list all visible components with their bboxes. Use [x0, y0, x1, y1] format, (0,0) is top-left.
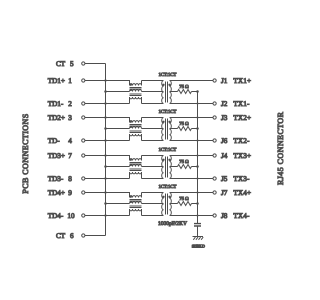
svg-text:1: 1	[68, 77, 72, 85]
wire transformer to J (+)	[170, 80, 214, 82]
phase dots choke L4	[130, 196, 132, 198]
wire center-tap bus to transformer CT	[106, 91, 130, 93]
wire choke to transformer (-)	[142, 103, 164, 105]
common-mode choke L3	[130, 156, 142, 179]
phase dots transformer T4	[162, 196, 164, 198]
svg-text:TD1-: TD1-	[48, 100, 64, 108]
pin CT6 circle	[82, 234, 85, 237]
wire choke to transformer (-)	[142, 178, 164, 180]
svg-text:J5: J5	[221, 175, 228, 183]
svg-text:TD3+: TD3+	[48, 152, 65, 160]
phase dots choke L3	[130, 159, 132, 161]
wire transformer to J (-)	[170, 140, 214, 142]
termination rail	[197, 92, 199, 224]
junction dots channel 4	[104, 191, 199, 216]
wire transformer to J (+)	[170, 192, 214, 194]
resistor R1 75 ohm	[170, 91, 178, 93]
wire TD1+ lead	[85, 81, 130, 86]
svg-text:J2: J2	[221, 100, 228, 108]
wire choke to transformer (+)	[142, 155, 164, 157]
junction dots channel 3	[104, 154, 199, 179]
phase dots transformer T3	[162, 159, 164, 161]
svg-text:2: 2	[68, 100, 72, 108]
svg-text:75 Ω: 75 Ω	[179, 121, 189, 127]
wire center-tap bus to transformer CT	[106, 166, 130, 168]
resistor R4 75 ohm	[170, 203, 178, 205]
wire TD2+ lead	[85, 118, 130, 123]
transformer T1 1CT:1CT	[162, 81, 172, 104]
svg-text:TX2-: TX2-	[233, 137, 250, 145]
svg-text:TX3+: TX3+	[233, 152, 251, 160]
transformer T3 1CT:1CT	[162, 156, 172, 179]
svg-text:J6: J6	[221, 137, 228, 145]
capacitor C1 1000pF/2KV	[194, 224, 201, 226]
svg-text:TX1+: TX1+	[233, 77, 251, 85]
svg-text:7: 7	[68, 152, 72, 160]
svg-text:1000pF/2KV: 1000pF/2KV	[158, 221, 187, 227]
wire transformer to J (-)	[170, 103, 214, 105]
wire transformer to J (-)	[170, 178, 214, 180]
transformer T4 1CT:1CT	[162, 193, 172, 216]
pin circles channel 1	[82, 79, 217, 105]
svg-text:5: 5	[70, 60, 74, 68]
node CT6 wire	[85, 235, 106, 237]
svg-text:CT: CT	[56, 232, 66, 240]
wire choke to transformer (+)	[142, 80, 164, 82]
shield ground symbol	[193, 237, 204, 240]
svg-text:10: 10	[67, 212, 75, 220]
wire TD3+ lead	[85, 156, 130, 161]
svg-text:4: 4	[68, 137, 72, 145]
svg-text:TD2+: TD2+	[48, 114, 65, 122]
wire transformer to J (-)	[170, 215, 214, 217]
transformer T2 1CT:1CT	[162, 118, 172, 141]
wire choke to transformer (-)	[142, 140, 164, 142]
svg-text:J8: J8	[221, 212, 228, 220]
resistor R3 75 ohm	[170, 166, 178, 168]
svg-text:1CT:1CT: 1CT:1CT	[158, 72, 176, 78]
pin circles channel 2	[82, 116, 217, 142]
svg-text:TX3-: TX3-	[233, 175, 250, 183]
wire transformer to J (+)	[170, 155, 214, 157]
resistor R2 75 ohm	[170, 128, 178, 130]
common-mode choke L4	[130, 193, 142, 216]
svg-text:TD-: TD-	[48, 137, 61, 145]
svg-text:J3: J3	[221, 114, 228, 122]
svg-text:1CT:1CT: 1CT:1CT	[158, 109, 176, 115]
common-mode choke L1	[130, 81, 142, 104]
node CT5 wire	[85, 63, 106, 65]
wire TD4- lead	[85, 215, 130, 217]
wire center-tap bus to transformer CT	[106, 128, 130, 130]
pin circles channel 3	[82, 154, 217, 180]
pin CT5 circle	[82, 62, 85, 65]
phase dots transformer T2	[162, 121, 164, 123]
phase dots transformer T1	[162, 84, 164, 86]
wire center-tap bus to transformer CT	[106, 203, 130, 205]
svg-text:PCB CONNECTIONS: PCB CONNECTIONS	[21, 113, 30, 193]
wire TD2- lead	[85, 140, 130, 142]
phase dots choke L2	[130, 121, 132, 123]
svg-text:RJ45 CONNECTOR: RJ45 CONNECTOR	[276, 111, 285, 185]
svg-text:8: 8	[68, 175, 72, 183]
wire TD4+ lead	[85, 193, 130, 198]
wire choke to transformer (+)	[142, 192, 164, 194]
center tap bus	[105, 64, 107, 236]
svg-text:TX2+: TX2+	[233, 114, 251, 122]
svg-text:3: 3	[68, 114, 72, 122]
wire choke to transformer (+)	[142, 117, 164, 119]
wire choke to transformer (-)	[142, 215, 164, 217]
svg-text:75 Ω: 75 Ω	[179, 196, 189, 202]
svg-text:CT: CT	[56, 60, 66, 68]
wire transformer to J (+)	[170, 117, 214, 119]
svg-text:TD3-: TD3-	[48, 175, 64, 183]
svg-text:SHIELD: SHIELD	[192, 243, 205, 248]
wire crossing blobs on termination rail	[197, 103, 199, 217]
svg-text:TX1-: TX1-	[233, 100, 250, 108]
svg-text:J7: J7	[221, 189, 228, 197]
junction dots channel 1	[104, 79, 199, 104]
junction dots channel 2	[104, 116, 199, 141]
svg-text:J4: J4	[221, 152, 228, 160]
svg-text:1CT:1CT: 1CT:1CT	[158, 184, 176, 190]
svg-text:75 Ω: 75 Ω	[179, 159, 189, 165]
svg-text:TD4+: TD4+	[48, 189, 65, 197]
common-mode choke L2	[130, 118, 142, 141]
svg-text:6: 6	[70, 232, 74, 240]
svg-text:J1: J1	[221, 77, 228, 85]
svg-text:9: 9	[68, 189, 72, 197]
wire TD3- lead	[85, 178, 130, 180]
svg-text:TX4-: TX4-	[233, 212, 250, 220]
wire TD1- lead	[85, 103, 130, 105]
svg-text:1CT:1CT: 1CT:1CT	[158, 147, 176, 153]
phase dots choke L1	[130, 84, 132, 86]
svg-text:TX4+: TX4+	[233, 189, 251, 197]
pin circles channel 4	[82, 191, 217, 217]
svg-text:75 Ω: 75 Ω	[179, 84, 189, 90]
svg-text:TD4-: TD4-	[48, 212, 64, 220]
svg-text:TD1+: TD1+	[48, 77, 65, 85]
